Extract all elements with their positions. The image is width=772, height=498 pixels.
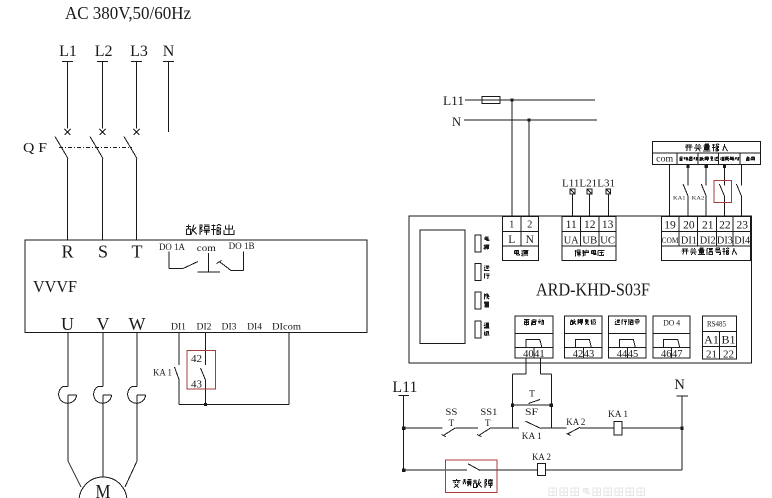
svg-text:T: T bbox=[529, 390, 535, 400]
svg-text:23: 23 bbox=[736, 220, 748, 232]
svg-text:44: 44 bbox=[617, 349, 628, 360]
svg-text:11: 11 bbox=[566, 219, 577, 231]
svg-text:22: 22 bbox=[719, 220, 731, 232]
svg-text:KA 1: KA 1 bbox=[153, 369, 172, 379]
svg-text:21: 21 bbox=[706, 349, 717, 361]
svg-text:21: 21 bbox=[702, 220, 714, 232]
svg-text:43: 43 bbox=[584, 349, 595, 360]
svg-text:40: 40 bbox=[523, 349, 534, 360]
svg-text:Q F: Q F bbox=[23, 140, 48, 155]
svg-text:N: N bbox=[674, 377, 685, 393]
svg-text:COM: COM bbox=[662, 235, 679, 245]
svg-text:DIcom: DIcom bbox=[272, 323, 302, 333]
svg-text:KA 2: KA 2 bbox=[566, 418, 585, 428]
svg-text:com: com bbox=[197, 244, 217, 254]
svg-text:KA1: KA1 bbox=[673, 196, 686, 202]
svg-text:L3: L3 bbox=[130, 43, 148, 60]
svg-text:43: 43 bbox=[191, 379, 203, 391]
svg-text:DO 4: DO 4 bbox=[663, 318, 681, 328]
svg-text:L: L bbox=[508, 234, 515, 246]
svg-text:T: T bbox=[132, 242, 143, 262]
svg-text:R: R bbox=[61, 242, 73, 262]
svg-text:S: S bbox=[98, 242, 108, 262]
svg-text:T: T bbox=[449, 418, 455, 428]
svg-text:N: N bbox=[526, 234, 535, 246]
svg-text:DI4: DI4 bbox=[734, 236, 751, 247]
svg-text:N: N bbox=[452, 115, 461, 129]
svg-text:12: 12 bbox=[584, 219, 596, 231]
svg-text:L11: L11 bbox=[392, 379, 417, 396]
svg-text:U: U bbox=[61, 314, 74, 334]
svg-text:DI1: DI1 bbox=[681, 236, 697, 247]
svg-text:L2: L2 bbox=[95, 43, 113, 60]
svg-text:KA 1: KA 1 bbox=[522, 432, 542, 442]
svg-text:L11L21L31: L11L21L31 bbox=[562, 179, 615, 190]
svg-text:UB: UB bbox=[582, 235, 597, 247]
svg-text:2: 2 bbox=[527, 220, 532, 231]
svg-text:A1: A1 bbox=[704, 333, 719, 347]
svg-text:1: 1 bbox=[509, 220, 514, 231]
svg-text:47: 47 bbox=[672, 349, 683, 360]
svg-text:19: 19 bbox=[664, 220, 676, 232]
svg-text:DI3: DI3 bbox=[717, 236, 733, 247]
svg-text:AC 380V,50/60Hz: AC 380V,50/60Hz bbox=[65, 3, 191, 23]
svg-text:B1: B1 bbox=[721, 333, 735, 347]
svg-text:KA 1: KA 1 bbox=[608, 410, 628, 420]
svg-text:42: 42 bbox=[573, 349, 584, 360]
svg-text:20: 20 bbox=[683, 220, 695, 232]
svg-text:W: W bbox=[129, 314, 146, 334]
svg-text:L1: L1 bbox=[59, 43, 77, 60]
svg-text:SF: SF bbox=[525, 408, 538, 418]
svg-text:41: 41 bbox=[534, 349, 545, 360]
svg-text:UC: UC bbox=[600, 235, 615, 247]
svg-text:KA 2: KA 2 bbox=[532, 453, 551, 463]
svg-text:DI2: DI2 bbox=[700, 236, 716, 247]
svg-text:13: 13 bbox=[602, 219, 614, 231]
svg-text:22: 22 bbox=[723, 349, 734, 361]
svg-text:M: M bbox=[96, 481, 111, 498]
svg-text:45: 45 bbox=[628, 349, 639, 360]
svg-text:com: com bbox=[656, 154, 673, 164]
svg-text:RS485: RS485 bbox=[707, 320, 726, 329]
svg-text:SS1: SS1 bbox=[480, 408, 497, 418]
svg-text:DI4: DI4 bbox=[247, 323, 262, 333]
svg-text:UA: UA bbox=[564, 235, 579, 247]
svg-text:KA2: KA2 bbox=[692, 196, 705, 202]
svg-text:ARD-KHD-S03F: ARD-KHD-S03F bbox=[536, 280, 650, 300]
svg-text:T: T bbox=[485, 418, 491, 428]
svg-text:V: V bbox=[97, 314, 110, 334]
svg-text:N: N bbox=[163, 43, 175, 60]
svg-text:SS: SS bbox=[445, 408, 457, 418]
svg-text:DI3: DI3 bbox=[222, 323, 237, 333]
svg-text:DI2: DI2 bbox=[197, 323, 212, 333]
svg-text:46: 46 bbox=[661, 349, 672, 360]
svg-text:DO 1A: DO 1A bbox=[159, 243, 185, 253]
svg-text:42: 42 bbox=[191, 353, 202, 365]
svg-text:DI1: DI1 bbox=[171, 323, 186, 333]
svg-text:L11: L11 bbox=[443, 94, 464, 108]
svg-text:VVVF: VVVF bbox=[33, 277, 77, 296]
svg-text:DO 1B: DO 1B bbox=[229, 242, 255, 252]
